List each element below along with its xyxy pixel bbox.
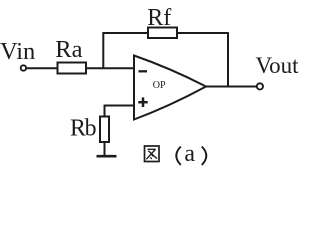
svg-text:a: a [184, 141, 195, 167]
op-amp inverting input minus sign [139, 70, 148, 72]
caption glyph 图 (drawn) [145, 146, 160, 162]
label Rf [147, 5, 171, 31]
node at inverting input branch [102, 33, 104, 68]
label Ra [55, 36, 82, 63]
resistor Rf [148, 28, 177, 39]
label Vout [256, 53, 300, 78]
svg-text:Vin: Vin [0, 38, 35, 65]
input terminal (open circle) [21, 65, 26, 70]
wire op-amp output to terminal [206, 86, 256, 88]
svg-text:Vout: Vout [256, 53, 300, 78]
caption text (a) [176, 141, 206, 167]
svg-text:OP: OP [153, 80, 166, 91]
svg-text:Rf: Rf [147, 5, 171, 31]
op-amp label OP [153, 80, 166, 91]
wire Ra to op-amp inverting input [86, 67, 134, 69]
wire feedback top-left to Rf [102, 32, 148, 34]
svg-text:Ra: Ra [55, 36, 82, 63]
wire Rb to ground [104, 142, 106, 156]
wire Rf to right feedback corner [177, 32, 229, 34]
resistor Rb [100, 117, 109, 143]
output terminal (open circle) [257, 83, 263, 89]
svg-text:Rb: Rb [70, 116, 96, 142]
label Rb [70, 116, 96, 142]
wire input terminal to Ra [27, 67, 58, 69]
op-amp U1 triangle [134, 56, 206, 120]
op-amp non-inverting input plus sign [138, 97, 147, 107]
resistor Ra [58, 63, 87, 74]
wire non-inverting input to Rb branch [105, 105, 135, 117]
label Vin [0, 38, 35, 65]
ground [97, 155, 117, 158]
wire feedback right vertical down to output [227, 33, 229, 87]
